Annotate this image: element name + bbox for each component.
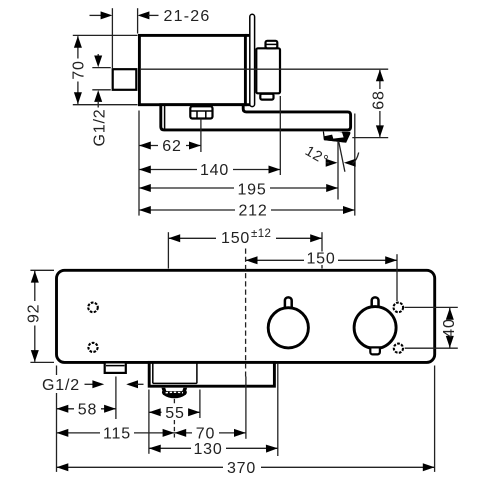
connection dashed circle lower-right	[394, 344, 403, 353]
body bottom bridge to plate	[245, 103, 250, 106]
svg-text:70: 70	[196, 426, 215, 443]
ext line panel right	[434, 366, 436, 472]
dim 40	[405, 306, 458, 308]
svg-text:G1/2: G1/2	[42, 377, 80, 394]
svg-text:21-26: 21-26	[164, 8, 211, 25]
dim 195	[139, 187, 338, 189]
ext line shelf front (212)	[354, 114, 356, 216]
centerline extension solid	[245, 377, 247, 439]
dim 212	[139, 209, 355, 211]
hose nut side view	[190, 106, 212, 118]
dim 115 and 70	[57, 432, 246, 434]
12 deg angle arrows	[326, 159, 338, 167]
dim 150	[246, 259, 397, 261]
aerator dome	[162, 388, 167, 392]
G1/2 stub front view	[105, 362, 126, 373]
left knob	[268, 308, 308, 348]
svg-text:92: 92	[26, 304, 43, 323]
shelf / spout arm	[161, 105, 351, 130]
dim 140	[139, 169, 280, 171]
dim 130	[149, 447, 278, 449]
svg-text:195: 195	[237, 181, 266, 198]
nut centerline	[200, 119, 202, 152]
knob top tab side	[266, 41, 278, 49]
svg-text:150: 150	[306, 250, 335, 267]
svg-text:212: 212	[238, 203, 267, 220]
dim 21-26	[90, 14, 104, 16]
knob bottom tab side	[260, 94, 273, 100]
shelf left inner wall	[164, 106, 166, 129]
right knob tab	[372, 297, 379, 308]
knob block side view	[256, 48, 280, 93]
svg-text:55: 55	[165, 405, 184, 422]
dim 370	[57, 466, 435, 468]
svg-text:68: 68	[371, 90, 388, 109]
ext line spout right	[199, 390, 201, 419]
dim 58	[57, 408, 116, 410]
connection dashed circle upper-right	[394, 303, 404, 313]
right knob bottom tab	[370, 347, 380, 354]
dim 70	[73, 34, 138, 36]
screw hole dashed circle upper-left	[88, 303, 98, 313]
aerator centerline dashed	[173, 399, 175, 438]
ext line bar left	[148, 390, 150, 454]
G1/2 label front view	[40, 375, 84, 393]
ext line 130 right	[277, 364, 279, 457]
panel centerline dash	[245, 249, 247, 377]
spout section inner walls	[152, 364, 154, 384]
ext line 21-26 left	[111, 8, 113, 68]
spout outlet	[323, 132, 350, 143]
screw hole dashed circle lower-left	[88, 343, 97, 352]
ext line knob front (140)	[279, 96, 281, 175]
svg-text:140: 140	[200, 162, 229, 179]
svg-text:±12: ±12	[251, 228, 271, 240]
svg-text:130: 130	[193, 441, 222, 458]
dim 55	[149, 411, 200, 413]
ext line 150pm12 left	[167, 232, 169, 268]
wall plate	[250, 14, 255, 106]
dim 92	[30, 269, 54, 271]
left knob tab	[285, 297, 292, 308]
body side view	[139, 35, 245, 104]
front panel	[57, 270, 435, 362]
seam / connection centerline	[140, 68, 388, 70]
wall extension line	[138, 111, 140, 216]
svg-text:150: 150	[221, 230, 250, 247]
ext line 150 right	[396, 254, 398, 301]
G1/2 inlet nipple	[113, 69, 137, 90]
12 deg slanted line	[339, 141, 345, 172]
ext line 21-26 right	[137, 8, 139, 33]
svg-text:58: 58	[78, 402, 97, 419]
under-panel bar	[149, 362, 274, 386]
dim 68	[352, 137, 388, 139]
ext line 150pm12 right	[321, 232, 323, 268]
ext line spout tip / 12deg reference	[337, 141, 339, 200]
dim 62	[139, 145, 201, 147]
ext line panel left	[56, 366, 58, 472]
svg-text:G1/2: G1/2	[91, 109, 108, 147]
svg-text:70: 70	[71, 60, 88, 79]
G1/2 label (side view)	[92, 67, 111, 69]
ext line G1/2 stub centerline	[115, 377, 117, 420]
right knob	[354, 307, 396, 349]
svg-text:370: 370	[227, 460, 256, 477]
body top bridge to plate	[245, 34, 250, 37]
svg-text:115: 115	[103, 426, 131, 443]
svg-text:40: 40	[441, 318, 458, 337]
svg-text:62: 62	[162, 138, 181, 155]
dim 150 +-12	[168, 237, 322, 239]
